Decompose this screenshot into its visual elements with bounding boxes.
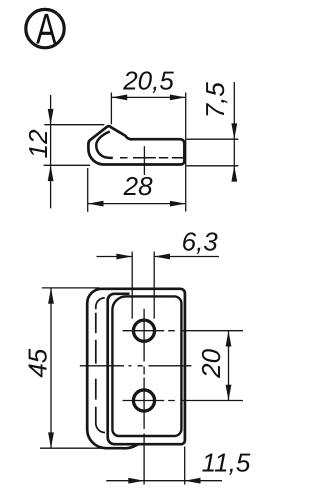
dim 28 bbox=[88, 168, 186, 212]
svg-text:45: 45 bbox=[22, 348, 52, 377]
dim 11,5 bbox=[106, 447, 251, 485]
dim 7,5 bbox=[187, 82, 239, 182]
front view face crease rect bbox=[112, 296, 181, 436]
side view hidden dashes y157.8 bbox=[120, 157, 183, 159]
hole bottom bbox=[133, 390, 154, 411]
svg-text:20: 20 bbox=[196, 348, 226, 378]
side view outer contour bbox=[88, 126, 184, 164]
front view hidden edge dashed bbox=[96, 298, 105, 433]
svg-text:28: 28 bbox=[123, 171, 153, 201]
front view hook outline bbox=[87, 289, 137, 448]
dim 6,3 bbox=[97, 226, 220, 318]
side view hole centerline vertical bbox=[143, 146, 145, 175]
svg-text:7,5: 7,5 bbox=[200, 82, 230, 119]
mid centerline horizontal bbox=[80, 365, 192, 367]
hole top bbox=[133, 320, 154, 341]
svg-text:20,5: 20,5 bbox=[122, 65, 174, 95]
svg-text:11,5: 11,5 bbox=[202, 447, 251, 477]
dim 20 bbox=[196, 331, 232, 401]
side view inner contour bbox=[96, 132, 113, 158]
hole bottom centerline horizontal bbox=[123, 400, 244, 402]
dim 20,5 bbox=[111, 65, 185, 211]
svg-text:12: 12 bbox=[23, 129, 53, 158]
hole top centerline horizontal bbox=[123, 330, 244, 332]
front view plate outline bbox=[108, 289, 185, 444]
view label A bbox=[26, 6, 64, 54]
svg-text:A: A bbox=[36, 6, 57, 54]
dim 12 bbox=[23, 95, 104, 208]
hole centerline vertical bbox=[143, 309, 145, 485]
svg-text:6,3: 6,3 bbox=[182, 226, 219, 256]
dim 45 bbox=[22, 288, 114, 448]
